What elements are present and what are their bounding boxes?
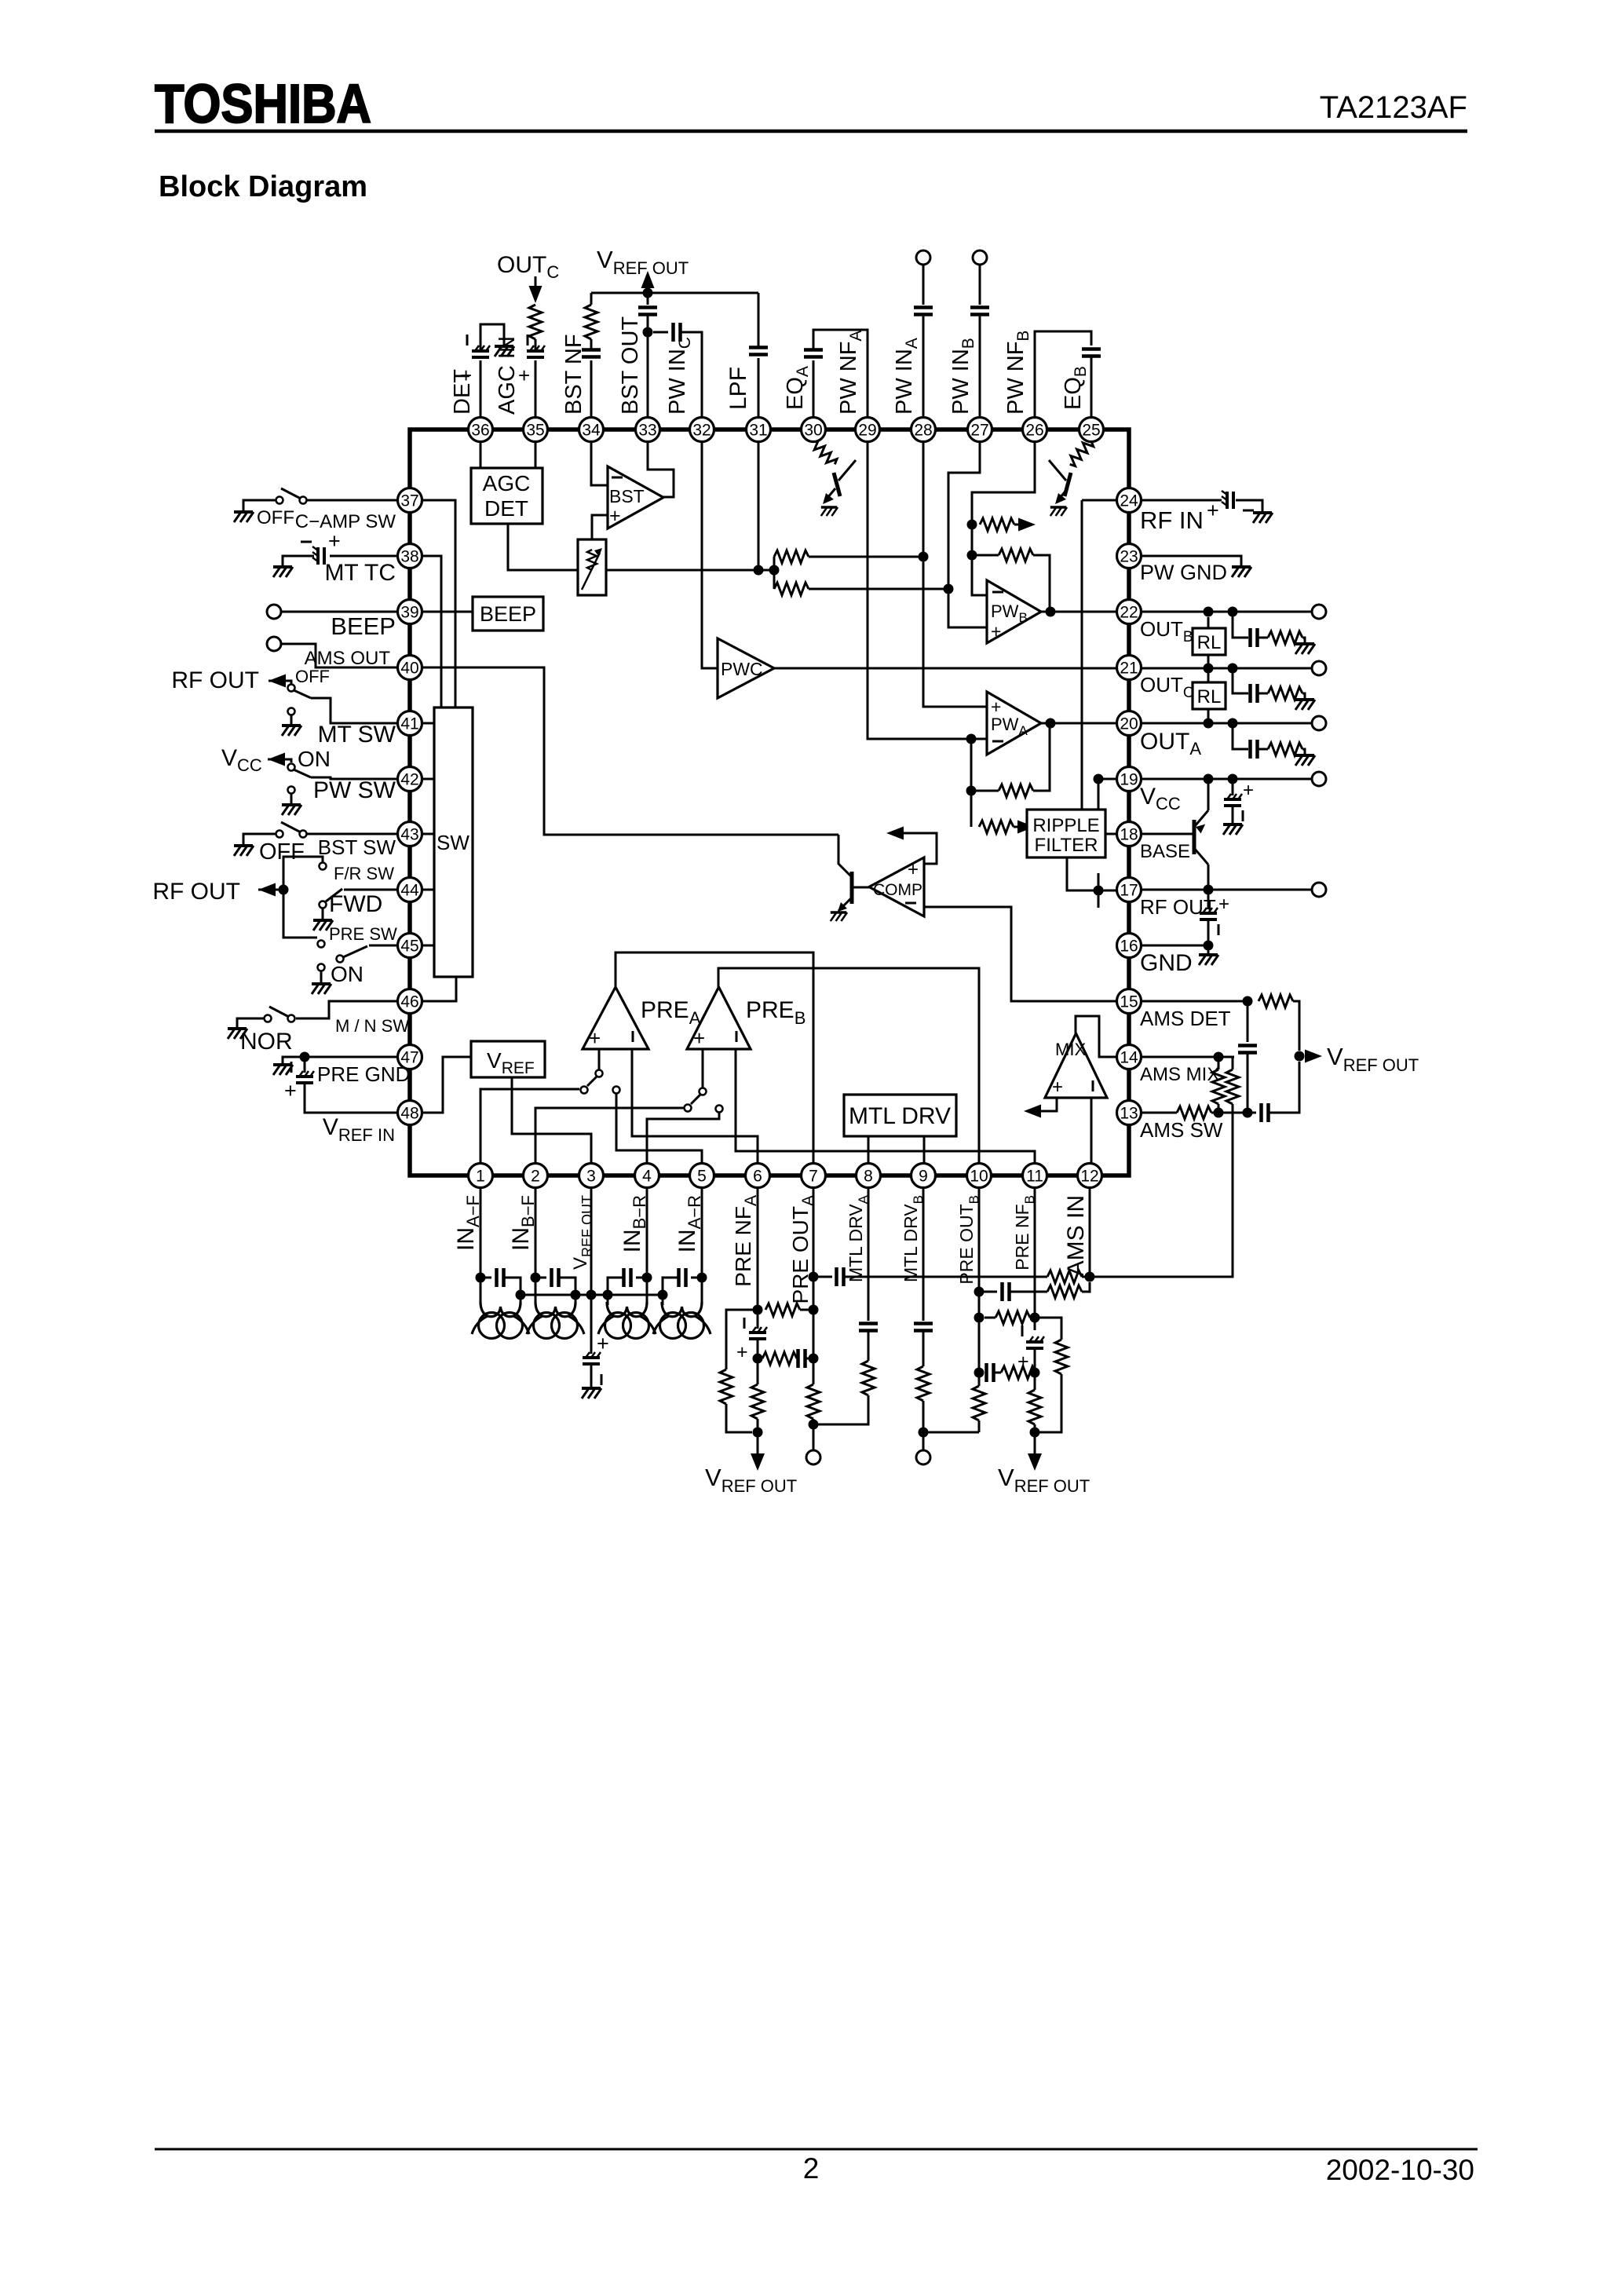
minus label C-rfout: [1218, 924, 1220, 935]
svg-text:ON: ON: [331, 962, 363, 986]
svg-text:RIPPLE: RIPPLE: [1032, 815, 1099, 836]
wire R-lpf-a to pin28 riser: [809, 556, 923, 558]
svg-text:29: 29: [858, 422, 876, 440]
capacitor C-zobel-b: [1251, 628, 1258, 647]
resistor R-amsdet: [1259, 995, 1293, 1007]
wire cap to resistor: [590, 339, 593, 349]
svg-text:27: 27: [970, 422, 988, 440]
wire lever to pin41: [311, 698, 397, 723]
electrolytic capacitor C-nfb: [1026, 1336, 1044, 1348]
wire cap to resistor: [535, 339, 537, 350]
wire pin1 ext riser: [480, 1187, 482, 1302]
svg-text:+: +: [736, 1341, 748, 1363]
junction pin4 input: [642, 1273, 652, 1283]
wire pin26 riser to PWB- input: [972, 441, 1035, 595]
switch contact (gnd): [318, 964, 325, 971]
svg-text:AMS OUT: AMS OUT: [305, 648, 391, 669]
switch lever PREB: [691, 1095, 700, 1104]
resistor R-pwa-var: [979, 821, 1014, 833]
svg-text:MT SW: MT SW: [318, 722, 396, 748]
svg-text:41: 41: [400, 715, 418, 733]
ground (Vref): [582, 1388, 601, 1398]
capacitor C-bstout-vref: [638, 308, 657, 315]
resistor R-nfb2: [995, 1311, 1030, 1324]
wire R1-ams to pin13 line: [1218, 1104, 1220, 1113]
junction OUTb RC: [1228, 607, 1238, 617]
pin 31: [747, 418, 771, 442]
wire junction to C-pregnd: [304, 1057, 306, 1073]
op-amp PREB: [687, 987, 751, 1049]
wire Vcc to ripple filter: [1098, 779, 1100, 810]
wire zobel-c to ground: [1302, 693, 1305, 700]
wire to R2-ams: [1232, 1057, 1234, 1069]
minus BST: [612, 477, 623, 479]
wire contact to pin4: [647, 1113, 719, 1164]
minus COMP: [905, 902, 916, 905]
arrow VREF OUT (top): [641, 271, 655, 288]
wire C-pwinb to pin27: [979, 315, 981, 417]
wire lever to pin42: [311, 777, 397, 779]
svg-text:RF OUT: RF OUT: [171, 667, 259, 693]
svg-text:PW NFB: PW NFB: [1003, 331, 1032, 415]
wire MIX output to pin14: [1076, 1016, 1117, 1057]
minus label C-nfa: [743, 1318, 746, 1329]
svg-text:BST SW: BST SW: [318, 835, 396, 859]
svg-text:6: 6: [753, 1168, 762, 1186]
wire cap to pin33: [647, 315, 649, 417]
wire pin37 to SW block: [422, 500, 455, 707]
junction pin5 input: [697, 1273, 707, 1283]
op-amp BST: [608, 466, 663, 528]
junction attenuator out: [769, 565, 780, 576]
svg-text:RL: RL: [1197, 686, 1222, 707]
svg-text:ON: ON: [298, 747, 331, 771]
junction Vcc cap: [1228, 774, 1238, 784]
wire PREB output to pin10: [718, 968, 979, 1164]
svg-text:OFF: OFF: [295, 667, 330, 686]
svg-text:AGC: AGC: [483, 471, 531, 495]
svg-text:25: 25: [1082, 422, 1100, 440]
svg-text:AMS SW: AMS SW: [1140, 1118, 1223, 1142]
junction bias rail pin4: [603, 1290, 613, 1300]
wire cap to bias rail: [505, 1278, 521, 1290]
switch contact (PRE): [318, 941, 325, 948]
wire BST output to pin33: [648, 441, 674, 497]
wire EQa loop to pin29: [813, 330, 868, 417]
junction AMS MIX: [1214, 1052, 1224, 1062]
wire C-mttc to ground: [283, 556, 314, 567]
svg-text:PW INB: PW INB: [948, 338, 977, 415]
svg-text:7: 7: [809, 1168, 818, 1186]
wire AMS DET to C-ams: [1247, 1001, 1249, 1042]
wire C-nfa2 to pin7 riser: [806, 1358, 813, 1360]
svg-text:PRE SW: PRE SW: [329, 924, 397, 944]
pin 48: [398, 1101, 422, 1125]
wire AMS OUT terminal to pin40: [281, 644, 397, 667]
minus label for C-agc: [527, 335, 529, 345]
resistor R-nfa2: [765, 1303, 800, 1316]
ground (MT SW): [282, 726, 301, 736]
pin 3: [579, 1164, 604, 1188]
svg-text:+: +: [1052, 1077, 1063, 1098]
pin 42: [398, 767, 422, 792]
wire C-rfout to GND node: [1207, 919, 1210, 945]
emitter arrow Q-comp: [838, 902, 847, 912]
resistor R-amssw: [1177, 1106, 1211, 1119]
svg-text:PRE GND: PRE GND: [317, 1062, 410, 1086]
svg-text:MT TC: MT TC: [324, 560, 396, 586]
resistor R-pouta: [807, 1384, 820, 1419]
wire pin15 AMS DET ext: [1141, 1000, 1248, 1003]
ground (RF IN): [1253, 513, 1273, 523]
wire pin24 to ripple filter: [1081, 500, 1083, 810]
junction PWB output: [1046, 607, 1056, 617]
wire MIX- to pin12: [1090, 1098, 1093, 1164]
wire C-lpf to Vref rail: [758, 293, 760, 347]
wire C-pregnd to pin48: [305, 1083, 397, 1113]
wire contact to ground: [290, 794, 293, 805]
svg-text:30: 30: [804, 422, 822, 440]
terminal MTL DRVb: [916, 1450, 930, 1464]
capacitor C-pouta: [837, 1267, 844, 1286]
wire R-nfa1 to Vref node: [726, 1404, 752, 1432]
wire pin11 ext riser: [1034, 1187, 1036, 1330]
wire OUTa zobel: [1233, 723, 1248, 749]
wire pin37 to switch: [307, 499, 397, 502]
switch contact (gnd): [288, 708, 295, 715]
wire pin19 Vcc line: [1098, 778, 1312, 781]
minus label for C-det: [466, 335, 469, 345]
arrow VREF OUT (bottom right): [1034, 1437, 1036, 1453]
resistor R-mtla: [862, 1361, 875, 1395]
terminal AMS OUT: [267, 637, 281, 651]
wire NFb right branch: [1035, 1318, 1061, 1340]
wire PWA NF chain: [970, 739, 973, 827]
ground (DET): [495, 346, 514, 356]
pin 11: [1023, 1164, 1047, 1188]
capacitor C-mtla: [859, 1324, 878, 1331]
switch contact (pin5): [613, 1087, 620, 1094]
switch contact (pin2): [685, 1105, 692, 1112]
junction bias rail pin5: [658, 1290, 668, 1300]
resistor R-nfb3: [1001, 1366, 1036, 1379]
emitter arrow Q-eqb: [1055, 493, 1066, 504]
svg-text:FILTER: FILTER: [1035, 835, 1098, 856]
pin 18: [1117, 822, 1142, 846]
wire: [868, 1331, 870, 1361]
wire OUTb zobel: [1233, 612, 1248, 638]
svg-text:PWC: PWC: [721, 659, 763, 679]
svg-text:+: +: [693, 1026, 705, 1050]
pin 43: [398, 822, 422, 846]
switch lever M/N SW: [269, 1007, 289, 1017]
wire pin4 ext riser: [646, 1187, 648, 1302]
wire bias to head: [520, 1295, 522, 1305]
capacitor C-nfa2: [798, 1349, 806, 1368]
resistor R-zobel-b: [1268, 631, 1302, 644]
ground (zobel c): [1295, 700, 1315, 710]
wire cap to bias rail: [560, 1278, 575, 1290]
svg-text:Block Diagram: Block Diagram: [159, 170, 367, 203]
svg-text:RF IN: RF IN: [1140, 506, 1204, 534]
minus label C-vref: [601, 1374, 603, 1385]
wire C-pwinc to pin32: [681, 332, 702, 417]
capacitor C-in1: [497, 1268, 504, 1287]
switch contact (FWD): [320, 901, 327, 909]
wire arrow to contact: [269, 681, 291, 684]
junction pin3 bias: [586, 1290, 597, 1300]
switch contact: [300, 831, 307, 838]
junction pin7 top: [809, 1272, 819, 1282]
svg-text:BST NF: BST NF: [561, 334, 586, 415]
junction Vref-a: [753, 1428, 763, 1438]
terminal Vcc: [1312, 772, 1326, 786]
svg-text:39: 39: [400, 604, 418, 622]
block VREF: [471, 1041, 545, 1077]
switch contact: [288, 1015, 295, 1022]
wire MIX+ to arrow: [1029, 1098, 1057, 1111]
switch lever PRE SW: [343, 946, 367, 957]
resistor R-amsin: [1047, 1270, 1082, 1283]
wire: [1034, 1424, 1036, 1437]
wire pin48 to VREF block: [422, 1057, 471, 1113]
pin 17: [1117, 878, 1142, 902]
wire C-eqb to pin25: [1090, 356, 1093, 417]
arrow COMP output: [886, 827, 904, 840]
pin 26: [1023, 418, 1047, 442]
minus label C-rfin: [1243, 510, 1254, 512]
wire zobel-a to ground: [1302, 749, 1305, 755]
wire attenuator to BST+: [592, 515, 608, 539]
wire: [1211, 1112, 1256, 1114]
wire switch to ground: [243, 500, 276, 512]
wire R-amsdet to Vref node: [1293, 1001, 1299, 1051]
wire pin28 riser to PWA+ input: [923, 441, 987, 707]
svg-text:42: 42: [400, 771, 418, 789]
junction OUTa RL: [1204, 718, 1214, 729]
svg-text:BEEP: BEEP: [480, 602, 536, 626]
op-amp MIX: [1045, 1033, 1107, 1098]
wire pin27 riser to PWB+ input: [948, 441, 987, 627]
svg-text:+: +: [609, 505, 621, 527]
bias rail: [521, 1294, 663, 1296]
wire PREA output to pin7: [616, 952, 813, 1164]
svg-text:19: 19: [1120, 771, 1138, 789]
wire RF OUT to C-rfout: [1207, 890, 1210, 909]
resistor R-pwb-fb: [999, 549, 1033, 561]
wire pin35 to AGC DET: [535, 441, 537, 468]
wire AGC DET to attenuator: [508, 524, 578, 570]
svg-text:RF OUT: RF OUT: [1140, 895, 1216, 919]
wire pin16 GND: [1141, 945, 1208, 947]
svg-text:TA2123AF: TA2123AF: [1320, 90, 1467, 125]
junction GND: [1204, 941, 1214, 951]
switch lever C-AMP SW: [281, 488, 301, 499]
junction NFb b: [1030, 1368, 1040, 1378]
junction Vref-b: [1030, 1428, 1040, 1438]
wire C-pwina to pin28: [922, 315, 925, 417]
wire pin44 to lever: [344, 889, 397, 891]
junction BST OUT node: [643, 327, 653, 338]
wire R-lpf-b to pin27 riser: [809, 588, 948, 590]
wire pin18 BASE to Q1 base: [1141, 833, 1194, 835]
svg-text:37: 37: [400, 492, 418, 510]
ground (Q-eqa): [821, 507, 838, 516]
svg-text:43: 43: [400, 826, 418, 844]
arrow to RF OUT (MT SW): [269, 675, 286, 688]
wire bias to head: [662, 1295, 664, 1305]
switch contact (gnd): [288, 787, 295, 794]
wire attenuator to LPF node: [606, 569, 774, 572]
capacitor C-eqb: [1082, 349, 1101, 356]
wire: [1014, 524, 1019, 526]
svg-text:BST OUT: BST OUT: [618, 316, 643, 415]
pin 2: [524, 1164, 548, 1188]
junction AMS DET: [1243, 996, 1253, 1007]
wire pin45 to SW block: [422, 945, 434, 947]
wire OUTc stub: [535, 276, 537, 289]
wire switch to ground: [237, 1018, 264, 1029]
switch lever F/R SW: [326, 889, 342, 901]
capacitor C-zobel-c: [1251, 684, 1258, 703]
wire C-nfb down: [1034, 1348, 1036, 1390]
minus PREB: [736, 1031, 738, 1042]
wire: [1259, 748, 1268, 751]
switch contact (pin4): [716, 1106, 723, 1113]
switch pole (PREA): [596, 1070, 603, 1077]
switch lever MT SW: [294, 690, 311, 698]
svg-text:3: 3: [586, 1168, 596, 1186]
svg-text:13: 13: [1120, 1105, 1138, 1123]
block BEEP: [473, 597, 543, 631]
wire pin34 BST NF up: [590, 360, 593, 417]
svg-text:M / N SW: M / N SW: [335, 1016, 409, 1036]
wire pin44 to SW block: [422, 889, 434, 891]
ground (C-AMP SW): [234, 512, 254, 522]
electrolytic capacitor C-rfout: [1200, 908, 1218, 919]
svg-text:38: 38: [400, 548, 418, 566]
junction pin1 input: [476, 1273, 486, 1283]
wire: [985, 1317, 995, 1319]
svg-text:16: 16: [1120, 938, 1138, 956]
svg-text:26: 26: [1025, 422, 1043, 440]
svg-text:+: +: [1243, 780, 1254, 801]
wire pin7 ext riser: [813, 1187, 815, 1384]
tape head (pin 2): [527, 1302, 584, 1339]
wire: [979, 1372, 982, 1374]
wire PREB- to pin11: [736, 1049, 1035, 1164]
svg-text:+: +: [1207, 499, 1219, 522]
capacitor C-in4: [624, 1268, 631, 1287]
wire NFa left branch: [726, 1310, 758, 1369]
ground (PRE GND): [273, 1065, 293, 1075]
emitter arrow Q-eqa: [823, 493, 834, 504]
junction pin7 b: [809, 1354, 819, 1364]
wire C-det to ground: [480, 324, 504, 350]
svg-text:11: 11: [1026, 1168, 1043, 1186]
ground (Q-comp): [831, 912, 847, 921]
tape head (pin 5): [653, 1302, 711, 1339]
wire pin34 to BST- input: [591, 441, 608, 485]
op-amp PWC: [718, 638, 774, 698]
ground (PW SW): [282, 805, 301, 815]
minus label C-vcc: [1242, 810, 1244, 821]
wire: [978, 1420, 981, 1432]
wire C-vcc to ground: [1232, 806, 1234, 824]
junction Vref rail / pin33 branch: [643, 288, 653, 298]
pin 46: [398, 989, 422, 1014]
block RIPPLE FILTER: [1027, 810, 1105, 857]
svg-text:PW GND: PW GND: [1140, 561, 1227, 584]
capacitor C-poutb: [1003, 1282, 1010, 1301]
wire: [1014, 826, 1018, 828]
junction NFa: [753, 1305, 763, 1315]
resistor R-eqa (diagonal): [813, 440, 837, 465]
wire PREB+ to pole: [702, 1049, 704, 1088]
wire Vcc to Q collector: [1207, 779, 1210, 810]
junction OUTc RC: [1228, 664, 1238, 674]
wire C-poutb to R: [1010, 1291, 1047, 1293]
svg-text:BEEP: BEEP: [331, 612, 396, 640]
wire pin2 ext riser: [535, 1187, 537, 1302]
junction Vcc ripple filter: [1094, 774, 1104, 784]
svg-text:35: 35: [526, 422, 544, 440]
resistor R-nfa4: [751, 1384, 764, 1419]
pin 30: [802, 418, 826, 442]
wire AMS network down to AMS IN node: [1095, 1113, 1233, 1277]
wire C-nfa down: [757, 1339, 759, 1384]
wire contact to pin5: [616, 1094, 702, 1164]
junction Vcc transistor: [1204, 774, 1214, 784]
wire pin9 ext riser: [922, 1187, 925, 1321]
wire R-nfb1 to Vref node: [1035, 1374, 1061, 1432]
wire GND stub: [1207, 945, 1210, 955]
ground (zobel a): [1295, 755, 1315, 766]
pin 25: [1080, 418, 1104, 442]
svg-text:24: 24: [1120, 492, 1138, 510]
pin 29: [856, 418, 880, 442]
wire: [1035, 1372, 1036, 1374]
minus PWB: [992, 591, 1003, 594]
pin 40: [398, 656, 422, 680]
pin 32: [690, 418, 714, 442]
terminal PW INa: [916, 250, 930, 265]
svg-text:48: 48: [400, 1105, 418, 1123]
wire pin46 to switch: [296, 1001, 397, 1018]
junction NFb: [1030, 1313, 1040, 1323]
wire C-rfin to ground: [1236, 500, 1262, 513]
op-amp PWA: [987, 692, 1041, 755]
wire pin6 ext riser: [757, 1187, 759, 1329]
capacitor C-eqa: [804, 350, 823, 357]
wire C-vref to ground: [590, 1364, 593, 1388]
pin 23: [1117, 544, 1142, 569]
switch contact: [276, 831, 283, 838]
junction bias rail pin2: [571, 1290, 581, 1300]
svg-text:44: 44: [400, 882, 419, 900]
svg-text:47: 47: [400, 1049, 418, 1067]
capacitor C-lpf: [749, 348, 768, 355]
junction AMS IN: [1085, 1272, 1095, 1282]
wire pin40 to Q-comp collector: [422, 667, 838, 835]
svg-text:+: +: [284, 1079, 297, 1102]
wire cap to bias rail: [608, 1278, 623, 1290]
wire pin13 AMS SW ext: [1141, 1112, 1177, 1114]
transistor Q-eqa: [827, 460, 856, 498]
svg-text:DET: DET: [484, 496, 528, 521]
resistor R-nfa3: [762, 1352, 797, 1365]
wire: [1259, 693, 1268, 695]
